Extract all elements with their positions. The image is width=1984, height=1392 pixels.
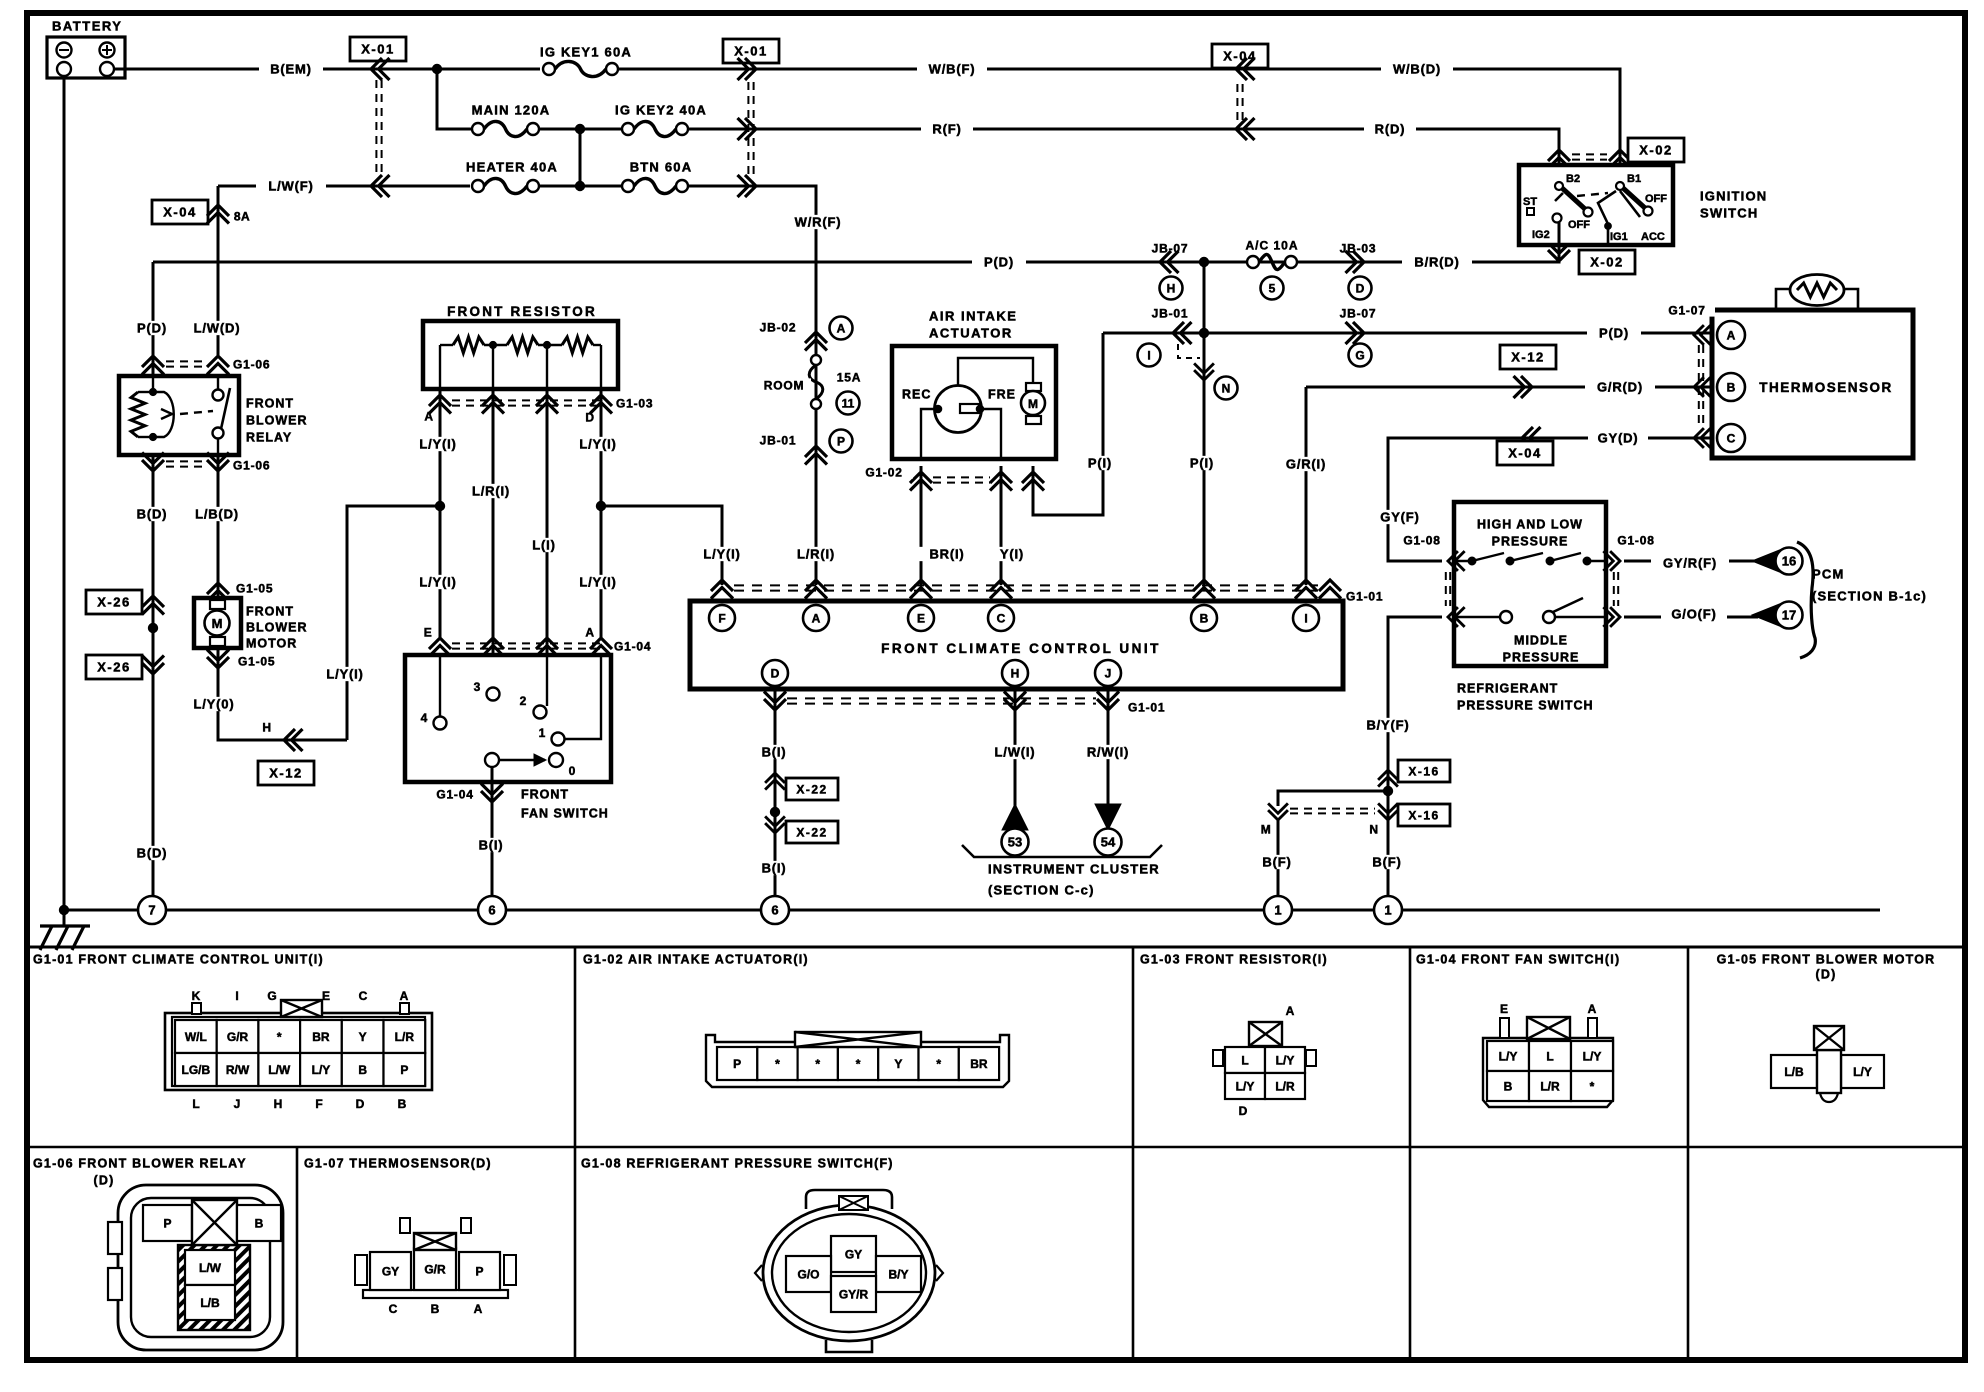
svg-text:M: M — [1261, 822, 1272, 836]
svg-text:G1-06: G1-06 — [233, 458, 270, 472]
svg-text:FRONT: FRONT — [521, 788, 569, 802]
svg-text:17: 17 — [1782, 608, 1796, 623]
connector X-16 upper — [1378, 770, 1398, 787]
svg-text:ST: ST — [1523, 196, 1537, 208]
wire P(D) down to relay — [152, 262, 155, 378]
connector X-12 right — [1500, 345, 1556, 369]
svg-text:B(I): B(I) — [762, 861, 787, 876]
svg-text:G/R(D): G/R(D) — [1597, 380, 1643, 395]
connector drawing G1-05 — [1771, 1055, 1817, 1088]
connector X-04 top — [1212, 44, 1268, 68]
svg-text:1: 1 — [1384, 903, 1391, 918]
ignition switch box — [1519, 165, 1673, 245]
svg-text:X-26: X-26 — [97, 660, 130, 675]
svg-text:W/B(D): W/B(D) — [1393, 62, 1441, 77]
svg-text:B: B — [431, 1302, 440, 1316]
svg-text:E: E — [1500, 1002, 1508, 1016]
svg-text:L/Y: L/Y — [312, 1063, 331, 1077]
svg-text:P(D): P(D) — [984, 255, 1014, 270]
svg-text:R(D): R(D) — [1375, 122, 1406, 137]
connector G1-01 top chevrons — [711, 580, 733, 599]
svg-text:C: C — [389, 1302, 398, 1316]
wire resistor pin3 L(I) to fan switch 2 — [546, 389, 549, 706]
svg-text:C: C — [359, 989, 368, 1003]
fuse IG KEY2 40A — [622, 123, 634, 135]
wire GY/R(F) to PCM 16 — [1624, 560, 1758, 563]
svg-text:1: 1 — [1274, 903, 1281, 918]
connector G1-05 bottom — [207, 650, 229, 669]
wire P(I) junction down to climate B — [1203, 262, 1206, 585]
connector drawing G1-07 — [355, 1255, 367, 1285]
svg-text:BTN 60A: BTN 60A — [630, 160, 693, 175]
svg-text:L/R: L/R — [395, 1030, 415, 1044]
svg-text:X-02: X-02 — [1590, 255, 1623, 270]
svg-text:GY(F): GY(F) — [1380, 510, 1419, 525]
svg-text:W/B(F): W/B(F) — [929, 62, 976, 77]
svg-text:L/R: L/R — [1540, 1079, 1560, 1093]
svg-text:P(I): P(I) — [1190, 456, 1214, 471]
svg-text:B(D): B(D) — [137, 846, 168, 861]
svg-text:FRONT: FRONT — [246, 397, 294, 411]
svg-text:GY/R(F): GY/R(F) — [1663, 556, 1717, 571]
wire B(D) relay to X-26 — [152, 455, 155, 592]
svg-text:L/W(F): L/W(F) — [268, 179, 313, 194]
svg-text:L/Y: L/Y — [1583, 1049, 1602, 1063]
wire BR(I) to climate E — [920, 466, 923, 585]
svg-text:BLOWER: BLOWER — [246, 414, 308, 428]
svg-text:G: G — [1355, 348, 1364, 362]
svg-text:X-16: X-16 — [1408, 808, 1439, 822]
svg-text:GY: GY — [845, 1247, 862, 1261]
relay switch — [217, 376, 219, 390]
svg-text:MAIN 120A: MAIN 120A — [472, 103, 551, 118]
svg-text:MOTOR: MOTOR — [246, 637, 297, 651]
svg-text:A: A — [585, 625, 594, 639]
svg-text:8A: 8A — [234, 209, 250, 223]
svg-text:FRONT RESISTOR: FRONT RESISTOR — [447, 304, 597, 319]
svg-text:B(F): B(F) — [1372, 855, 1401, 870]
svg-text:(SECTION B-1c): (SECTION B-1c) — [1812, 589, 1927, 604]
wire Y(I) to climate C — [1000, 466, 1003, 585]
svg-text:2: 2 — [520, 694, 527, 708]
svg-text:D: D — [585, 410, 594, 424]
svg-text:G1-05 FRONT BLOWER MOTOR: G1-05 FRONT BLOWER MOTOR — [1717, 953, 1936, 967]
svg-text:G1-07: G1-07 — [1668, 303, 1705, 317]
svg-text:FRE: FRE — [988, 388, 1016, 402]
ground node 1 M — [1264, 896, 1292, 924]
ground node 1 N — [1374, 896, 1402, 924]
svg-text:L/W: L/W — [268, 1063, 291, 1077]
svg-text:PRESSURE: PRESSURE — [1492, 535, 1569, 549]
svg-text:THERMOSENSOR: THERMOSENSOR — [1759, 380, 1893, 395]
svg-text:X-16: X-16 — [1408, 764, 1439, 778]
svg-text:L/Y(I): L/Y(I) — [326, 667, 363, 682]
svg-text:Y(I): Y(I) — [1000, 547, 1024, 562]
connector drawing G1-01 — [165, 1013, 432, 1090]
svg-text:X-01: X-01 — [734, 44, 767, 59]
svg-text:PRESSURE SWITCH: PRESSURE SWITCH — [1457, 699, 1594, 713]
connector drawing G1-08 — [806, 1190, 892, 1209]
svg-text:N: N — [1369, 822, 1378, 836]
svg-text:L/W(D): L/W(D) — [194, 321, 241, 336]
svg-text:1: 1 — [539, 726, 546, 740]
wire W/B(D) down to ignition switch B1 — [1610, 69, 1620, 167]
svg-text:X-01: X-01 — [361, 42, 394, 57]
svg-text:53: 53 — [1008, 835, 1022, 850]
svg-text:IG KEY2 40A: IG KEY2 40A — [615, 103, 707, 118]
svg-text:G1-04 FRONT FAN SWITCH(I): G1-04 FRONT FAN SWITCH(I) — [1416, 953, 1620, 967]
svg-text:JB-01: JB-01 — [1152, 306, 1189, 320]
svg-text:A: A — [1286, 1004, 1295, 1018]
svg-text:G/O: G/O — [797, 1267, 819, 1281]
svg-text:*: * — [856, 1057, 861, 1071]
svg-text:6: 6 — [488, 903, 495, 918]
svg-text:P: P — [837, 434, 845, 448]
svg-text:P: P — [733, 1057, 741, 1071]
svg-text:ACC: ACC — [1641, 231, 1665, 243]
connector drawing G1-03 — [1213, 1050, 1223, 1066]
svg-text:G1-08: G1-08 — [1403, 533, 1440, 547]
svg-text:X-22: X-22 — [796, 782, 827, 796]
svg-text:H: H — [1167, 281, 1176, 295]
svg-text:PCM: PCM — [1812, 567, 1845, 582]
svg-text:H: H — [1011, 666, 1020, 680]
battery — [47, 37, 125, 78]
svg-text:PRESSURE: PRESSURE — [1503, 651, 1580, 665]
svg-text:(D): (D) — [1816, 968, 1837, 982]
svg-text:N: N — [1222, 381, 1231, 395]
svg-text:G1-02 AIR INTAKE ACTUATOR(I): G1-02 AIR INTAKE ACTUATOR(I) — [583, 953, 809, 967]
svg-text:RELAY: RELAY — [246, 431, 292, 445]
connector G1-01 bottom chevrons — [764, 692, 786, 711]
connector X-02 below ignition switch — [1548, 243, 1570, 262]
connector X-04 right — [1522, 427, 1541, 449]
svg-text:L/R: L/R — [1275, 1079, 1295, 1093]
svg-text:*: * — [936, 1057, 941, 1071]
wire L/B(D) relay to motor — [217, 455, 220, 598]
connector JB-03 D — [1346, 251, 1365, 273]
svg-text:L/B(D): L/B(D) — [195, 507, 239, 522]
svg-text:G1-08 REFRIGERANT PRESSURE SWI: G1-08 REFRIGERANT PRESSURE SWITCH(F) — [581, 1157, 894, 1171]
svg-text:A: A — [812, 611, 821, 625]
climate unit pins top — [709, 605, 735, 631]
fuse BTN 60A — [622, 180, 634, 192]
svg-text:JB-07: JB-07 — [1340, 306, 1377, 320]
svg-text:B/R(D): B/R(D) — [1414, 255, 1459, 270]
connector X-22 upper — [765, 773, 785, 790]
svg-text:G1-06: G1-06 — [233, 357, 270, 371]
wire L/Y(0) motor to X-12 — [218, 648, 347, 740]
svg-text:L: L — [1241, 1053, 1248, 1067]
svg-text:L/Y(I): L/Y(I) — [703, 547, 740, 562]
connector JB-01 P — [805, 446, 827, 465]
svg-text:B/Y: B/Y — [888, 1267, 908, 1281]
svg-text:H: H — [274, 1097, 283, 1111]
connector G1-08 right — [1603, 551, 1620, 571]
svg-text:HIGH AND LOW: HIGH AND LOW — [1477, 518, 1583, 532]
svg-text:GY/R: GY/R — [839, 1287, 869, 1301]
node battery ground junction — [59, 905, 68, 914]
svg-text:JB-03: JB-03 — [1340, 241, 1377, 255]
node junction X-22 — [770, 807, 779, 816]
fuse A/C 10A — [1247, 256, 1259, 268]
svg-text:JB-07: JB-07 — [1152, 241, 1189, 255]
svg-text:BR(I): BR(I) — [929, 547, 964, 562]
svg-text:LG/B: LG/B — [182, 1063, 211, 1077]
svg-text:AIR INTAKE: AIR INTAKE — [929, 309, 1017, 324]
svg-text:GY(D): GY(D) — [1598, 431, 1639, 446]
node junction MAIN/IG KEY2 — [539, 128, 622, 131]
svg-text:JB-02: JB-02 — [760, 320, 797, 334]
connector G1-05 top — [207, 583, 229, 602]
svg-text:D: D — [356, 1097, 365, 1111]
connector JB-01 I — [1173, 322, 1192, 344]
svg-text:IG KEY1 60A: IG KEY1 60A — [540, 45, 632, 60]
connector JB-02 A — [815, 318, 818, 585]
svg-text:L/Y: L/Y — [1499, 1049, 1518, 1063]
wire BTN to W/R(F) corner — [688, 186, 816, 318]
connector drawing G1-06 — [118, 1185, 283, 1350]
svg-text:0: 0 — [569, 764, 576, 778]
svg-text:A: A — [837, 321, 846, 335]
front blower motor — [194, 598, 241, 648]
svg-text:REFRIGERANT: REFRIGERANT — [1457, 682, 1558, 696]
svg-text:D: D — [1239, 1104, 1248, 1118]
svg-text:ROOM: ROOM — [764, 378, 805, 392]
svg-text:X-22: X-22 — [796, 825, 827, 839]
refrigerant pressure switch box — [1454, 502, 1606, 666]
svg-text:L/R(I): L/R(I) — [797, 547, 835, 562]
svg-text:A: A — [400, 989, 409, 1003]
svg-text:G1-05: G1-05 — [238, 654, 275, 668]
node junction JB-01/P(I) — [1199, 328, 1208, 337]
svg-text:P: P — [475, 1264, 483, 1278]
svg-text:G1-04: G1-04 — [614, 639, 651, 653]
connector JB-07 H — [1160, 251, 1179, 273]
svg-text:G/R: G/R — [227, 1030, 249, 1044]
svg-text:G1-03 FRONT RESISTOR(I): G1-03 FRONT RESISTOR(I) — [1140, 953, 1328, 967]
wire junction down to MAIN fuse row — [437, 69, 473, 129]
actuator motor — [1026, 383, 1041, 391]
fan switch terminals — [439, 655, 441, 717]
svg-text:X-04: X-04 — [163, 205, 196, 220]
svg-text:B(I): B(I) — [762, 745, 787, 760]
svg-text:Y: Y — [894, 1057, 902, 1071]
svg-text:FAN SWITCH: FAN SWITCH — [521, 807, 609, 821]
thermosensor pins — [1659, 303, 1715, 316]
connector X-26 upper — [86, 590, 142, 614]
wire P(D) row to ignition switch IG2 — [153, 261, 1204, 264]
svg-text:I: I — [235, 989, 238, 1003]
svg-text:X-02: X-02 — [1639, 143, 1672, 158]
svg-text:Y: Y — [359, 1030, 367, 1044]
svg-text:15A: 15A — [837, 370, 861, 384]
svg-text:I: I — [1304, 611, 1307, 625]
svg-text:X-12: X-12 — [269, 766, 302, 781]
climate unit pins bottom — [762, 660, 788, 686]
svg-text:3: 3 — [474, 680, 481, 694]
svg-text:IG1: IG1 — [1610, 231, 1628, 243]
svg-text:L/B: L/B — [200, 1296, 220, 1310]
svg-text:P(I): P(I) — [1088, 456, 1112, 471]
connector X-04 left with pin 9A — [217, 186, 220, 355]
svg-text:J: J — [1105, 666, 1112, 680]
svg-text:G1-08: G1-08 — [1617, 533, 1654, 547]
wire actuator M to P(I) riser — [1033, 333, 1103, 515]
node junction P(D)/P(I) — [1199, 257, 1208, 266]
svg-text:(D): (D) — [94, 1174, 115, 1188]
svg-text:G1-01 FRONT CLIMATE CONTROL UN: G1-01 FRONT CLIMATE CONTROL UNIT(I) — [33, 953, 324, 967]
wire L/Y(I) riser to resistor A junction — [347, 506, 440, 740]
svg-text:F: F — [315, 1097, 322, 1111]
svg-text:D: D — [771, 666, 780, 680]
node junction B(EM) — [432, 64, 441, 73]
wire battery negative to ground — [63, 76, 66, 910]
svg-text:4: 4 — [421, 711, 428, 725]
wire G/R row to thermosensor B — [1306, 386, 1710, 389]
svg-text:G: G — [267, 989, 276, 1003]
svg-text:L/Y: L/Y — [1236, 1079, 1255, 1093]
svg-text:R(F): R(F) — [932, 122, 961, 137]
svg-text:R/W(I): R/W(I) — [1087, 745, 1129, 760]
svg-text:OFF: OFF — [1645, 193, 1667, 205]
PCM bracket — [1797, 542, 1815, 658]
svg-text:FRONT: FRONT — [246, 605, 294, 619]
actuator selector — [935, 386, 982, 433]
svg-text:6: 6 — [771, 903, 778, 918]
svg-text:7: 7 — [148, 903, 155, 918]
connector G1-02 — [910, 472, 932, 491]
node junction B/Y — [1383, 786, 1392, 795]
svg-text:SWITCH: SWITCH — [1700, 206, 1758, 221]
connector JB-07 G — [1346, 322, 1365, 344]
wire GY row from thermosensor C — [1388, 438, 1710, 561]
svg-text:G/O(F): G/O(F) — [1671, 607, 1716, 622]
connector G1-08 left — [1448, 551, 1465, 571]
node junction HEATER/BTN — [539, 185, 622, 188]
high/low pressure contacts — [1454, 560, 1472, 562]
connector X-02 above ignition switch — [1548, 150, 1570, 169]
wire B(EM) battery to X-01 — [114, 68, 437, 71]
svg-text:A: A — [1588, 1002, 1597, 1016]
wire R/W(I) climate J to instrument cluster 54 — [1107, 689, 1110, 830]
svg-text:B(F): B(F) — [1262, 855, 1291, 870]
svg-text:OFF: OFF — [1568, 219, 1590, 231]
svg-text:J: J — [234, 1097, 241, 1111]
svg-text:G1-03: G1-03 — [616, 396, 653, 410]
svg-text:A: A — [474, 1302, 483, 1316]
fuse MAIN 120A — [472, 123, 484, 135]
wire resistor D junction to climate unit F — [600, 389, 603, 640]
svg-text:L/Y(I): L/Y(I) — [579, 575, 616, 590]
svg-text:L/W: L/W — [199, 1261, 222, 1275]
svg-text:I: I — [1147, 348, 1150, 362]
svg-text:L/Y(I): L/Y(I) — [419, 575, 456, 590]
svg-text:MIDDLE: MIDDLE — [1514, 634, 1568, 648]
wire L/W(F) row — [218, 185, 470, 188]
front fan switch box — [405, 655, 611, 782]
connector G1-06 top — [142, 356, 164, 375]
connector X-01 — [350, 37, 406, 61]
wire junction down to HEATER row — [579, 129, 582, 186]
svg-text:(SECTION C-c): (SECTION C-c) — [988, 883, 1095, 898]
ground bus wire — [64, 909, 1880, 912]
svg-text:B(I): B(I) — [479, 838, 504, 853]
svg-text:16: 16 — [1782, 554, 1796, 569]
svg-text:INSTRUMENT CLUSTER: INSTRUMENT CLUSTER — [988, 862, 1160, 877]
node on B(D) wire — [152, 592, 155, 906]
svg-text:B2: B2 — [1566, 173, 1580, 185]
svg-text:BLOWER: BLOWER — [246, 621, 308, 635]
svg-text:BATTERY: BATTERY — [52, 19, 122, 34]
svg-text:L/Y(I): L/Y(I) — [419, 437, 456, 452]
svg-text:L/Y: L/Y — [1276, 1053, 1295, 1067]
svg-text:L: L — [192, 1097, 199, 1111]
connector G1-04 bottom — [491, 767, 494, 906]
svg-text:IG2: IG2 — [1532, 229, 1550, 241]
svg-text:L: L — [1546, 1049, 1553, 1063]
svg-text:5: 5 — [1269, 281, 1276, 295]
svg-text:L/R(I): L/R(I) — [472, 484, 510, 499]
svg-text:W/R(F): W/R(F) — [795, 215, 842, 230]
wire L/W(I) climate H to instrument cluster 53 — [1014, 689, 1017, 806]
front blower relay box — [119, 376, 239, 455]
instrument cluster bracket — [962, 845, 1162, 857]
svg-text:L/Y: L/Y — [1853, 1065, 1872, 1079]
ground symbol — [63, 910, 66, 926]
svg-text:G/R: G/R — [424, 1262, 446, 1276]
svg-text:B: B — [255, 1216, 264, 1230]
svg-text:A: A — [424, 409, 433, 423]
svg-text:JB-01: JB-01 — [760, 433, 797, 447]
svg-text:G1-04: G1-04 — [436, 787, 473, 801]
svg-text:A: A — [1727, 328, 1736, 342]
svg-text:L/W(I): L/W(I) — [995, 745, 1036, 760]
svg-text:GY: GY — [382, 1264, 399, 1278]
svg-text:C: C — [997, 611, 1006, 625]
table grid — [27, 947, 1965, 1360]
svg-text:L/Y(0): L/Y(0) — [194, 697, 235, 712]
fuse HEATER 40A — [472, 180, 484, 192]
svg-text:B(D): B(D) — [137, 507, 168, 522]
actuator wires down — [921, 409, 938, 459]
wire resistor pin2 L/R(I) to fan switch 3 — [492, 389, 495, 688]
svg-text:P(D): P(D) — [137, 321, 167, 336]
svg-text:*: * — [815, 1057, 820, 1071]
svg-text:54: 54 — [1101, 835, 1116, 850]
svg-text:G1-02: G1-02 — [865, 465, 902, 479]
svg-text:M: M — [1028, 397, 1038, 411]
svg-text:P: P — [400, 1063, 408, 1077]
svg-text:B(EM): B(EM) — [270, 62, 312, 77]
svg-text:ACTUATOR: ACTUATOR — [929, 326, 1013, 341]
svg-text:G/R(I): G/R(I) — [1286, 457, 1326, 472]
svg-text:L/B: L/B — [1784, 1065, 1804, 1079]
fuse IG KEY1 60A — [437, 68, 540, 71]
svg-text:E: E — [424, 625, 433, 639]
connector G1-03 — [429, 395, 451, 414]
wire B(F) N to ground 1 — [1387, 791, 1390, 897]
svg-text:C: C — [1727, 431, 1736, 445]
svg-text:IGNITION: IGNITION — [1700, 189, 1767, 204]
svg-text:G1-05: G1-05 — [236, 581, 273, 595]
fan switch wiper — [485, 753, 499, 767]
svg-text:K: K — [192, 989, 201, 1003]
svg-text:F: F — [718, 611, 725, 625]
wire IG2 to X-02 — [1558, 222, 1561, 245]
svg-text:W/L: W/L — [185, 1030, 207, 1044]
ground node 6 climate — [761, 896, 789, 924]
